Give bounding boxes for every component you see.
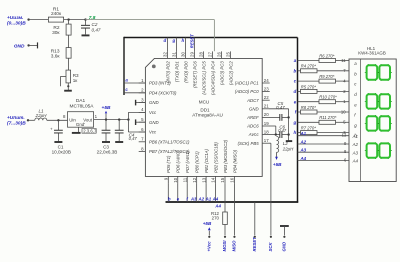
- resistor R11 270 segment g: [293, 115, 349, 125]
- resistor R4 270 segment b: [294, 64, 349, 74]
- ground below R3: [64, 90, 72, 92]
- svg-text:A4: A4: [212, 196, 219, 201]
- svg-text:PB7 (XTAL2/TOSC2): PB7 (XTAL2/TOSC2): [149, 149, 190, 154]
- wire pin29 to bus, net RESET: [189, 34, 194, 52]
- svg-text:0,47: 0,47: [129, 136, 138, 141]
- svg-text:11: 11: [182, 177, 187, 182]
- bus top segment: [124, 37, 298, 39]
- svg-text:11: 11: [341, 58, 346, 63]
- ground below C2: [82, 34, 90, 36]
- node ISP pin GND: [282, 236, 287, 252]
- svg-text:15: 15: [220, 177, 225, 182]
- wire top pin to bus, net h: [182, 38, 186, 52]
- capacitor C1 10,0x20V: [50, 120, 71, 154]
- svg-text:(ADC1) PC1: (ADC1) PC1: [235, 81, 259, 86]
- svg-text:A2: A2: [352, 142, 359, 147]
- svg-text:ATmega8A-AU: ATmega8A-AU: [192, 112, 223, 117]
- pin 31 (TXD) PD1 (top): [171, 51, 179, 82]
- svg-text:SCK: SCK: [268, 242, 273, 252]
- ground below C4: [115, 141, 123, 143]
- svg-text:22,0х6,3В: 22,0х6,3В: [97, 149, 118, 154]
- node +Uizm input terminal: [7, 15, 30, 26]
- svg-text:31: 31: [171, 52, 176, 57]
- bus bottom segment: [166, 201, 299, 203]
- svg-text:R6 270*: R6 270*: [319, 53, 335, 58]
- node +5V arrow at L2: [273, 152, 282, 167]
- svg-text:R10 270*: R10 270*: [319, 95, 337, 100]
- pin 5 GND (left): [139, 117, 159, 125]
- node GND terminal top-left: [14, 42, 38, 49]
- svg-text:(ADC0) PC0: (ADC0) PC0: [235, 89, 259, 94]
- svg-text:R9 270*: R9 270*: [319, 74, 335, 79]
- svg-text:3,6к: 3,6к: [51, 53, 61, 59]
- svg-text:(ADC3) PC3: (ADC3) PC3: [219, 61, 224, 85]
- resistor R1 240k: [48, 6, 63, 22]
- svg-text:R8 270*: R8 270*: [301, 105, 317, 110]
- resistor R13 3,6k: [51, 48, 71, 60]
- pin 32 (INT0) PD2 (top): [162, 51, 170, 83]
- pin 28 (ADC5/SCL) PC5 (top): [198, 51, 206, 94]
- wire measure net to pin27 ADC4: [86, 20, 215, 52]
- svg-text:PD4 (XCK/T0): PD4 (XCK/T0): [149, 90, 177, 95]
- wire R1 to divider node: [64, 18, 87, 20]
- svg-text:29: 29: [189, 52, 194, 57]
- ground bar ISP GND: [280, 226, 289, 235]
- wire bottom pin 12 to bus: [196, 183, 198, 202]
- svg-text:GND: GND: [149, 100, 159, 105]
- svg-text:L2: L2: [283, 141, 288, 146]
- svg-text:26: 26: [216, 52, 221, 57]
- wire R3 to ground: [67, 58, 69, 90]
- resistor R9 270 segment c: [294, 74, 349, 84]
- pin 8 PB7 (XTAL2/TOSC2) (left): [139, 146, 190, 154]
- pin 19 ADC6 (right): [246, 121, 270, 129]
- wire anode A3: [298, 148, 350, 155]
- 7-segment digit 4: [367, 143, 390, 157]
- svg-text:19: 19: [264, 121, 269, 126]
- svg-text:12: 12: [342, 133, 347, 138]
- pin 21 GND (right): [249, 104, 270, 112]
- svg-text:A4: A4: [352, 159, 359, 164]
- pin 11 PD7 (AIN1) (bottom): [182, 150, 190, 183]
- pin 4 Vcc (left): [139, 107, 157, 115]
- svg-text:PB0 (ICP1): PB0 (ICP1): [194, 151, 199, 173]
- svg-text:PD6 (AIN0): PD6 (AIN0): [176, 150, 181, 173]
- capacitor C3 22,0x6,3V: [97, 120, 118, 155]
- svg-text:PD5 (T1): PD5 (T1): [166, 155, 171, 173]
- svg-text:270: 270: [212, 215, 220, 220]
- resistor R6 270 segment a: [294, 53, 349, 63]
- bus right segment: [297, 38, 299, 203]
- svg-text:21: 21: [264, 104, 269, 109]
- wire pin19 ADC6 join AVcc: [270, 126, 276, 135]
- wire input to L1: [28, 119, 35, 121]
- pin 1 PD3 (INT1) (left): [139, 78, 172, 86]
- pin 14 PB2 (SS/OC1B) (bottom): [211, 142, 219, 184]
- svg-text:Gnd': Gnd': [76, 122, 85, 127]
- resistor R10 270 segment e: [294, 95, 349, 105]
- svg-text:16: 16: [230, 177, 235, 182]
- svg-text:DA1: DA1: [76, 98, 86, 104]
- net label e: [177, 196, 180, 201]
- net label b: [168, 196, 171, 201]
- svg-text:30к: 30к: [52, 30, 60, 36]
- svg-text:PB3 (MOSI/OC2): PB3 (MOSI/OC2): [223, 139, 228, 173]
- svg-text:0,47: 0,47: [278, 128, 287, 133]
- svg-text:28: 28: [198, 52, 203, 57]
- pin 2 PD4 (XCK/T0) (left): [139, 88, 177, 96]
- svg-text:32: 32: [162, 52, 167, 57]
- ground bar pin5: [136, 119, 146, 125]
- svg-text:13: 13: [201, 177, 206, 182]
- pin 29 (RESET) PC6 (top): [189, 51, 197, 88]
- capacitor C5 0,47 (AREF): [270, 101, 290, 121]
- svg-text:(ADC5/SCL) PC5: (ADC5/SCL) PC5: [201, 61, 206, 95]
- svg-text:(RXD) PD0: (RXD) PD0: [183, 61, 188, 83]
- pin 7 PB6 (XTAL1/TOSC1) (left): [139, 137, 190, 145]
- node ISP pin MISO: [232, 236, 237, 252]
- svg-text:A3: A3: [352, 150, 359, 155]
- svg-text:30: 30: [180, 52, 185, 57]
- svg-text:14: 14: [211, 177, 216, 182]
- svg-text:MISO: MISO: [232, 240, 237, 252]
- svg-text:GND: GND: [282, 242, 287, 252]
- svg-text:d: d: [294, 89, 297, 94]
- resistor R8 270 segment f: [295, 105, 349, 115]
- node +5V arrow label: [102, 105, 111, 119]
- pin 20 AREF (right): [246, 112, 270, 120]
- net label A4 below bus: [214, 204, 221, 209]
- svg-text:22μН: 22μН: [35, 113, 48, 118]
- svg-text:(ADC2) PC2: (ADC2) PC2: [228, 61, 233, 85]
- svg-text:22μН: 22μН: [282, 147, 294, 152]
- mcu DD1 ATmega8A-AU body: [145, 58, 262, 176]
- pin 9 PD5 (T1) (bottom): [164, 155, 172, 183]
- net label A4: [212, 196, 219, 201]
- svg-text:Vcc: Vcc: [149, 110, 157, 115]
- svg-text:10,0х20В: 10,0х20В: [52, 149, 71, 154]
- wire anode A2: [298, 139, 350, 146]
- svg-text:ADC6: ADC6: [246, 124, 259, 129]
- svg-text:10: 10: [341, 109, 346, 114]
- inductor L2 22uH: [277, 136, 295, 152]
- wire RESET to bus: [254, 202, 256, 235]
- capacitor C2 0,47: [81, 20, 101, 35]
- node ISP pin +Vcc: [207, 236, 212, 252]
- svg-text:GND: GND: [14, 43, 25, 49]
- svg-text:GND: GND: [149, 120, 159, 125]
- pin 10 PD6 (AIN0) (bottom): [173, 150, 181, 183]
- bus left leg: [123, 37, 125, 95]
- svg-text:R5 270*: R5 270*: [301, 84, 317, 89]
- node +Upit input terminal: [7, 115, 29, 126]
- svg-text:A2: A2: [197, 196, 204, 201]
- net label A2: [197, 196, 204, 201]
- svg-text:MOSI: MOSI: [222, 240, 227, 252]
- pin 16 PB4 (MISO) (bottom): [230, 149, 238, 183]
- node label 7,8: [89, 15, 96, 21]
- node ISP pin RESET: [252, 236, 257, 252]
- wire bottom pin 9 to bus: [167, 183, 169, 202]
- svg-text:PB6 (XTAL1/TOSC1): PB6 (XTAL1/TOSC1): [149, 139, 190, 144]
- 7-segment digit 3: [367, 116, 390, 130]
- svg-text:A2: A2: [300, 139, 307, 144]
- wire R2 to R13: [68, 35, 70, 48]
- svg-text:b: b: [168, 196, 171, 201]
- svg-text:ADC7: ADC7: [246, 98, 259, 103]
- wire bottom pin 10 to bus: [177, 183, 179, 202]
- svg-text:+Uизм.: +Uизм.: [7, 15, 23, 21]
- wire pin1 to bus, net a: [124, 78, 145, 84]
- svg-text:GND: GND: [249, 106, 259, 111]
- pin 6 Vcc (left): [139, 127, 157, 135]
- svg-text:Vcc: Vcc: [149, 130, 157, 135]
- pin 25 (ADC2) PC2 (top): [225, 51, 233, 85]
- ground below right rail: [286, 140, 292, 142]
- svg-text:240к: 240к: [51, 11, 62, 17]
- wire pin2 to bus, net c: [124, 87, 145, 93]
- svg-text:+Uпит.: +Uпит.: [7, 115, 25, 121]
- svg-text:+5В: +5В: [273, 162, 282, 167]
- svg-text:A3: A3: [190, 196, 197, 201]
- svg-text:+5В: +5В: [102, 105, 111, 111]
- pin 22 ADC7 (right): [246, 95, 270, 103]
- pin 23 (ADC0) PC0 (right): [235, 86, 270, 94]
- svg-text:17: 17: [264, 138, 269, 143]
- svg-text:(7...30)В: (7...30)В: [7, 121, 26, 127]
- node ISP pin MOSI: [222, 236, 227, 252]
- capacitor C4 0,47: [115, 120, 138, 142]
- pin 30 (RXD) PD0 (top): [180, 51, 188, 82]
- wire pin17 SCK to ISP: [270, 143, 271, 235]
- svg-text:(SCK) PB5: (SCK) PB5: [238, 141, 260, 146]
- svg-text:PD7 (AIN1): PD7 (AIN1): [185, 150, 190, 173]
- wire bottom pin 14 to bus: [215, 183, 217, 202]
- net label A3: [190, 196, 197, 201]
- resistor R12 270: [211, 183, 227, 235]
- pin 27 (ADC4/SDA) PC4 (top): [207, 51, 215, 95]
- svg-text:27: 27: [207, 52, 212, 57]
- capacitor C6 0,47 (AVcc): [270, 124, 290, 138]
- svg-text:A4: A4: [300, 156, 307, 161]
- pin 15 PB3 (MOSI/OC2) (bottom): [220, 139, 228, 183]
- svg-text:PB2 (SS/OC1B): PB2 (SS/OC1B): [213, 142, 218, 173]
- wire top pin to bus, net g: [172, 38, 177, 52]
- svg-text:b: b: [294, 68, 297, 73]
- pin group 2,3,6,7: [82, 128, 97, 133]
- wire DA1 gnd stub: [78, 127, 80, 132]
- svg-text:KW4-361AGB: KW4-361AGB: [358, 50, 386, 55]
- svg-text:0,47: 0,47: [276, 105, 285, 110]
- svg-text:12: 12: [192, 177, 197, 182]
- ground below C3: [102, 141, 110, 143]
- svg-text:+5В: +5В: [203, 221, 212, 226]
- wire +5V rail from DA1: [94, 118, 130, 120]
- pin 26 (ADC3) PC3 (top): [216, 51, 224, 85]
- wire bottom pin 11 to bus: [186, 183, 188, 202]
- resistor R5 270 segment d: [294, 84, 349, 94]
- wire L1 to DA1: [47, 119, 68, 121]
- svg-text:R7 270*: R7 270*: [301, 126, 317, 131]
- svg-text:18: 18: [264, 129, 269, 134]
- svg-text:10: 10: [173, 177, 178, 182]
- node ISP pin SCK: [268, 236, 273, 252]
- trimmer R3 1k: [60, 70, 79, 87]
- svg-text:20: 20: [264, 112, 269, 117]
- net label f: [186, 196, 188, 201]
- svg-text:(INT0) PD2: (INT0) PD2: [165, 61, 170, 83]
- svg-text:23: 23: [264, 86, 269, 91]
- svg-text:A4: A4: [214, 204, 221, 209]
- svg-text:d: d: [164, 38, 167, 43]
- svg-text:g: g: [293, 120, 297, 125]
- svg-text:A1: A1: [205, 196, 212, 201]
- display HL1 KW4-361AGB: [349, 46, 396, 182]
- svg-text:PB1 (OC1A): PB1 (OC1A): [204, 149, 209, 173]
- ground bar pin3: [136, 100, 146, 106]
- 7-segment digit 1: [367, 65, 390, 79]
- pin 13 PB1 (OC1A) (bottom): [201, 149, 209, 184]
- net label A1: [205, 196, 212, 201]
- svg-text:PB4 (MISO): PB4 (MISO): [232, 149, 237, 173]
- svg-text:h: h: [182, 38, 185, 43]
- pin 12 PB0 (ICP1) (bottom): [192, 151, 200, 184]
- wire Vcc pins 4,6: [128, 112, 145, 132]
- wire input to R1: [29, 19, 49, 21]
- svg-text:22: 22: [264, 95, 269, 100]
- 7-segment digit 2: [367, 94, 390, 108]
- svg-text:MCU: MCU: [199, 99, 209, 104]
- wire pin21 GND to rail: [270, 109, 289, 141]
- resistor R7 270 segment h: [294, 126, 349, 136]
- svg-text:2,3,6,7: 2,3,6,7: [83, 128, 97, 133]
- node +5V arrow ISP: [203, 221, 212, 235]
- svg-text:R4 270*: R4 270*: [301, 64, 317, 69]
- pin 24 (ADC1) PC1 (right): [235, 78, 270, 86]
- svg-text:AREF: AREF: [246, 115, 259, 120]
- wire MISO pin16: [233, 183, 235, 235]
- svg-text:25: 25: [225, 52, 230, 57]
- svg-text:24: 24: [264, 78, 269, 83]
- svg-text:A1: A1: [300, 131, 307, 136]
- svg-text:7,8: 7,8: [89, 15, 96, 21]
- wire top pin to bus, net d: [164, 38, 168, 52]
- inductor L1 22uH: [35, 109, 48, 121]
- svg-text:g: g: [172, 38, 176, 43]
- svg-text:A3: A3: [300, 148, 307, 153]
- ground below C1: [54, 141, 62, 143]
- svg-text:h: h: [294, 130, 297, 135]
- svg-text:RESET: RESET: [252, 237, 257, 252]
- svg-text:(ADC4/SDA) PC4: (ADC4/SDA) PC4: [210, 61, 215, 96]
- pin 3 GND (left): [139, 97, 159, 105]
- ground below DA1: [72, 132, 81, 134]
- svg-text:R11 270*: R11 270*: [319, 115, 337, 120]
- svg-text:(0...30)В: (0...30)В: [7, 21, 26, 27]
- svg-text:MC78L05A: MC78L05A: [70, 103, 95, 109]
- wire anode A4: [298, 156, 350, 163]
- svg-text:(RESET) PC6: (RESET) PC6: [192, 61, 197, 88]
- svg-text:A1: A1: [352, 134, 359, 139]
- svg-text:RESET: RESET: [189, 34, 194, 48]
- wire bottom pin 13 to bus: [205, 183, 207, 202]
- resistor R2 30k: [52, 20, 71, 37]
- wire anode A1: [298, 131, 350, 138]
- svg-text:0,47: 0,47: [92, 27, 101, 32]
- pin 17 (SCK) PB5 (right): [238, 138, 270, 146]
- svg-text:(TXD) PD1: (TXD) PD1: [174, 61, 179, 83]
- svg-text:AVcc: AVcc: [248, 132, 260, 137]
- pin 18 AVcc (right): [248, 129, 270, 137]
- voltage regulator DA1 MC78L05A: [63, 98, 98, 127]
- svg-text:+Vcc: +Vcc: [207, 241, 212, 252]
